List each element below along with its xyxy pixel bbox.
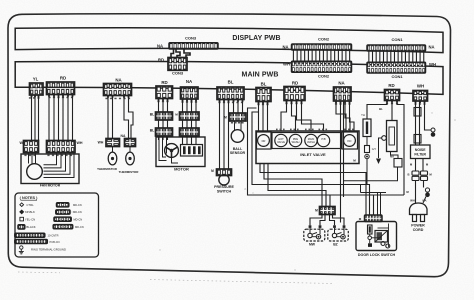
svg-text:DISPLAY PWB: DISPLAY PWB xyxy=(232,35,280,42)
svg-text:CON3: CON3 xyxy=(185,36,197,41)
svg-text:G/Y: G/Y xyxy=(372,147,377,151)
svg-text:NOISE: NOISE xyxy=(415,148,426,152)
svg-text:NA: NA xyxy=(338,81,345,86)
svg-text:POWER: POWER xyxy=(411,224,425,228)
svg-text:RD: RD xyxy=(60,76,66,81)
svg-text:NA: NA xyxy=(115,78,122,83)
svg-text:SENSOR: SENSOR xyxy=(230,151,246,155)
svg-text:WH: WH xyxy=(410,199,415,203)
svg-text:NA: NA xyxy=(282,45,288,50)
svg-text:WH: WH xyxy=(429,62,436,67)
svg-text:NA: NA xyxy=(121,134,126,138)
svg-text:DR: DR xyxy=(262,139,266,143)
svg-text:BZ: BZ xyxy=(333,243,338,247)
svg-text:THERMISTOR: THERMISTOR xyxy=(119,170,140,174)
svg-text:P/B: P/B xyxy=(321,137,325,141)
svg-text:CON2: CON2 xyxy=(318,74,330,79)
svg-text:BL: BL xyxy=(150,113,155,117)
svg-text:MD-CN: MD-CN xyxy=(75,225,84,229)
svg-text:WH: WH xyxy=(77,141,83,145)
svg-text:WH: WH xyxy=(417,84,424,89)
svg-text:MD-CN: MD-CN xyxy=(74,218,83,222)
svg-text:CORD: CORD xyxy=(413,228,424,232)
svg-text:( NOTES ): ( NOTES ) xyxy=(20,196,38,200)
svg-text:B: B xyxy=(407,173,409,177)
svg-text:CON3: CON3 xyxy=(172,71,184,76)
svg-text:10-CNTR: 10-CNTR xyxy=(48,234,59,238)
svg-text:VALVE: VALVE xyxy=(277,140,285,144)
svg-text:THERMISTOR: THERMISTOR xyxy=(97,167,118,171)
svg-text:y.: y. xyxy=(252,191,254,195)
svg-text:SWITCH: SWITCH xyxy=(217,190,232,194)
svg-text:M: M xyxy=(315,209,318,213)
svg-text:YEL-CN: YEL-CN xyxy=(25,218,35,222)
svg-text:M: M xyxy=(211,169,214,173)
svg-text:YL: YL xyxy=(33,77,39,82)
svg-text:RING TERMINAL GROUND: RING TERMINAL GROUND xyxy=(31,248,66,252)
svg-text:WH: WH xyxy=(283,62,290,67)
svg-text:WASH: WASH xyxy=(292,140,300,144)
svg-text:MOTOR: MOTOR xyxy=(174,167,189,172)
svg-text:FILTER: FILTER xyxy=(414,153,426,157)
svg-text:PRESSURE: PRESSURE xyxy=(214,185,234,189)
svg-text:BLACK: BLACK xyxy=(26,225,35,229)
svg-text:CON1: CON1 xyxy=(391,74,403,79)
svg-text:CON2: CON2 xyxy=(318,37,330,42)
svg-text:NA: NA xyxy=(428,45,434,50)
svg-text:6P-BLK: 6P-BLK xyxy=(25,210,35,214)
svg-text:BL: BL xyxy=(228,80,234,85)
svg-text:MAIN PWB: MAIN PWB xyxy=(242,72,279,79)
svg-text:BALL: BALL xyxy=(233,147,243,151)
svg-text:RD: RD xyxy=(292,81,298,86)
svg-text:BL: BL xyxy=(261,82,267,87)
svg-text:NA: NA xyxy=(186,79,193,84)
svg-text:MD-CN: MD-CN xyxy=(73,210,82,214)
svg-text:INLET VALVE: INLET VALVE xyxy=(300,152,326,157)
svg-text:BL: BL xyxy=(150,129,155,133)
svg-text:KD: KD xyxy=(348,139,352,143)
svg-text:MD-CN: MD-CN xyxy=(73,203,82,207)
svg-text:DOOR LOCK SWITCH: DOOR LOCK SWITCH xyxy=(358,253,396,257)
svg-text:PCB-CN: PCB-CN xyxy=(50,240,60,244)
svg-text:WH: WH xyxy=(98,141,104,145)
svg-text:M: M xyxy=(224,116,227,120)
svg-text:RD: RD xyxy=(161,80,167,85)
svg-text:CTRL: CTRL xyxy=(26,203,34,207)
svg-text:FAN MOTOR: FAN MOTOR xyxy=(40,184,61,188)
svg-text:NA: NA xyxy=(422,199,426,203)
svg-text:NA: NA xyxy=(390,155,394,159)
svg-text:NA: NA xyxy=(157,44,163,49)
svg-text:TH: TH xyxy=(361,113,365,117)
svg-text:MW: MW xyxy=(309,243,316,247)
svg-text:BL: BL xyxy=(379,107,383,111)
svg-text:CON1: CON1 xyxy=(391,37,403,42)
svg-text:WASH: WASH xyxy=(307,140,315,144)
svg-text:RD: RD xyxy=(388,83,394,88)
svg-text:RD: RD xyxy=(158,58,164,63)
